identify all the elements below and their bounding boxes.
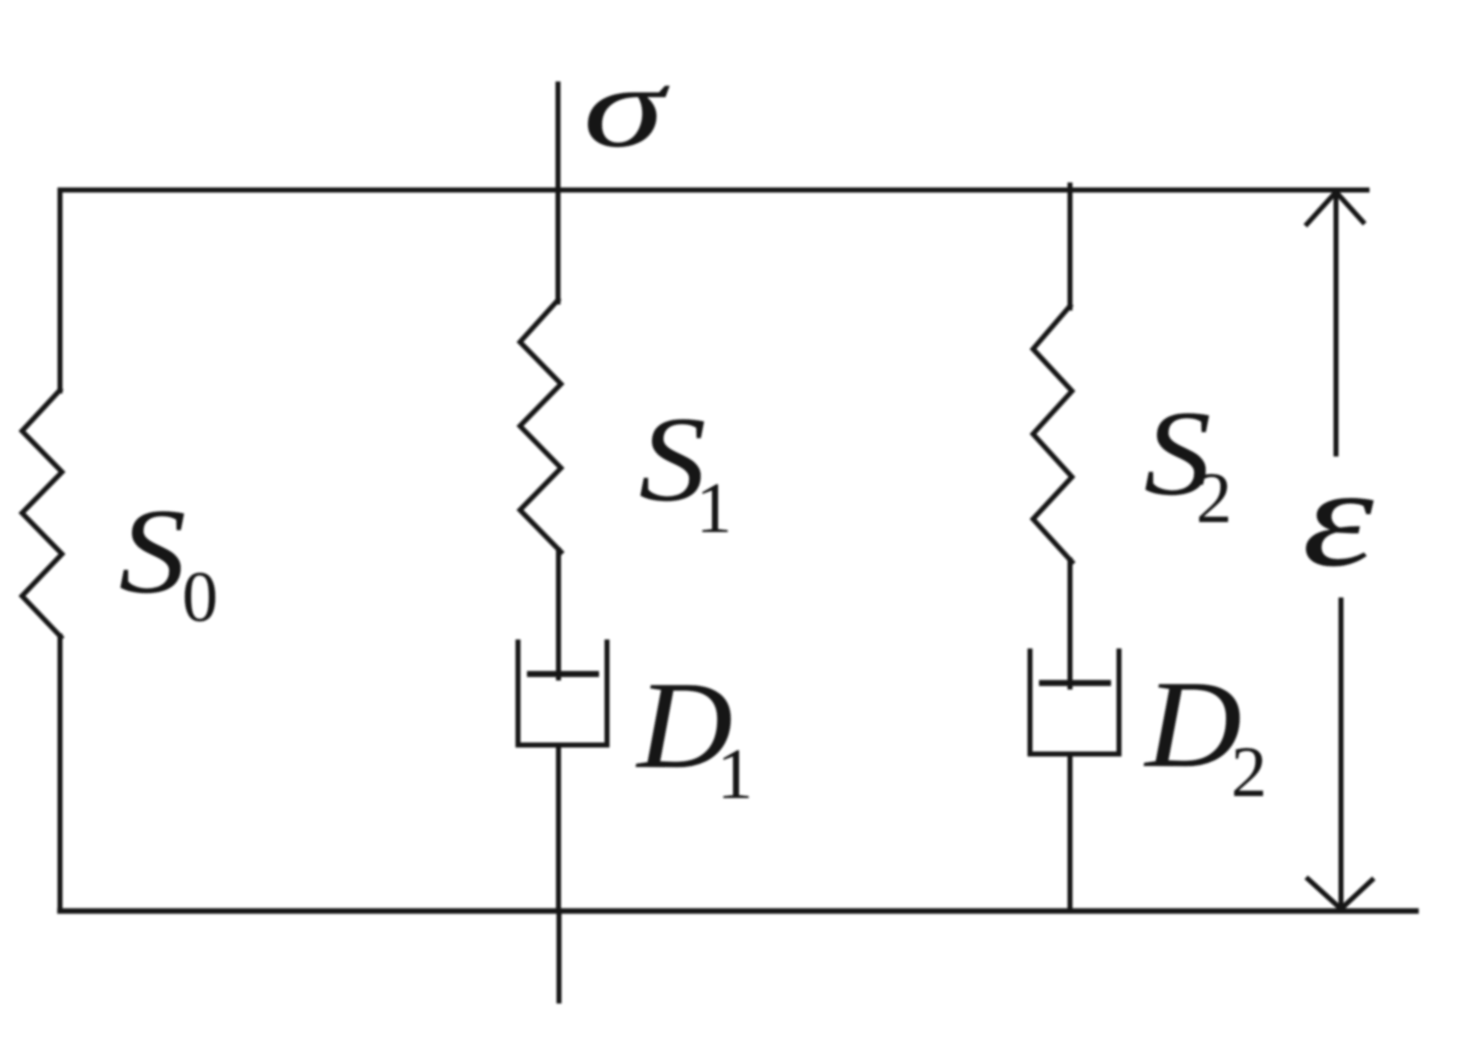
wire: stub below bottom bar — [557, 911, 562, 1001]
wire: left branch upper — [58, 190, 63, 391]
svg-text:S: S — [119, 483, 186, 619]
spring S1 — [520, 300, 561, 552]
wire: right branch upper — [1068, 185, 1073, 308]
wire: dashpot D2 to bottom bar — [1068, 754, 1073, 911]
svg-text:σ: σ — [583, 42, 671, 171]
dashpot D1 piston plate — [530, 671, 596, 677]
svg-text:D: D — [1143, 656, 1242, 794]
svg-text:1: 1 — [717, 734, 753, 814]
svg-text:1: 1 — [696, 468, 732, 548]
wire: bottom bar — [60, 908, 1416, 914]
wire: left branch lower — [58, 636, 63, 911]
wire: spring S2 to dashpot D2 piston — [1068, 560, 1073, 687]
wire: top bar — [60, 188, 1367, 193]
strain arrow upper arrowhead — [1307, 192, 1363, 224]
svg-text:0: 0 — [182, 557, 218, 637]
svg-text:2: 2 — [1231, 732, 1267, 812]
spring S0 — [22, 390, 62, 637]
strain arrow upper segment — [1334, 192, 1339, 454]
wire: spring S1 to dashpot D1 piston — [556, 550, 561, 678]
strain arrow lower arrowhead — [1308, 879, 1372, 909]
strain arrow lower segment — [1339, 600, 1344, 909]
wire: sigma stub above top bar — [556, 84, 561, 192]
spring S2 — [1033, 306, 1072, 562]
svg-text:2: 2 — [1196, 458, 1232, 538]
dashpot D2 cup — [1030, 651, 1119, 754]
dashpot D2 piston plate — [1042, 680, 1108, 686]
svg-text:ε: ε — [1302, 439, 1375, 596]
wire: dashpot D1 to bottom bar — [556, 745, 561, 911]
dashpot D1 cup — [518, 642, 607, 745]
wire: middle branch upper — [556, 190, 561, 302]
